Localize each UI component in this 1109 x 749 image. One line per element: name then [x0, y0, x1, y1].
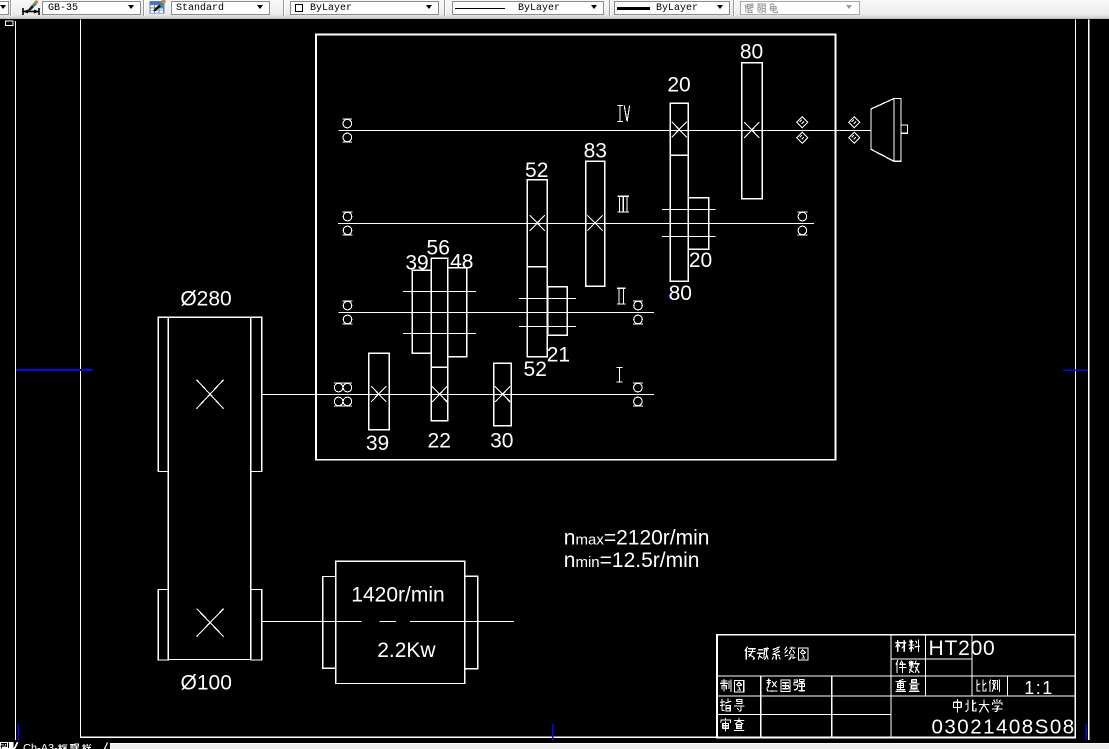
svg-text:22: 22 — [428, 430, 451, 453]
sheet outer left border — [15, 21, 17, 741]
active model tab — [0, 742, 14, 749]
X fixing gear 39 to shaft I — [371, 386, 386, 402]
shaft II — [338, 312, 654, 314]
bearing shaft III left lower — [343, 226, 353, 235]
dim style icon — [19, 0, 41, 17]
gear 39 on shaft II (cluster) — [412, 270, 431, 353]
layout tab glyphs biao ti lan — [58, 744, 66, 749]
X fixing gear 83 to shaft III — [587, 215, 602, 231]
sheet outer right border — [1088, 20, 1090, 743]
spline lines of 39/56/48 cluster on shaft II — [403, 291, 476, 293]
output pulley flange bar — [894, 99, 901, 162]
svg-text:80: 80 — [669, 282, 692, 305]
label shaft III — [618, 196, 629, 212]
X fixing gear 20 to shaft IV — [672, 122, 687, 138]
title block col line 1 — [760, 676, 762, 737]
svg-text:1420r/min: 1420r/min — [351, 584, 444, 607]
blue centerline dash right — [1063, 369, 1088, 371]
X fixing pulley D280 to shaft — [197, 380, 224, 409]
title block col line 4 — [924, 635, 926, 696]
spline lines of 80/20 cluster on shaft III — [662, 209, 716, 211]
output cone pulley — [871, 99, 894, 162]
X fixing gear 22 to shaft I — [432, 386, 447, 402]
title block col line 5 — [971, 635, 973, 696]
svg-text:Ø280: Ø280 — [180, 287, 231, 310]
bearing shaft I right upper — [633, 383, 643, 392]
belt loop — [168, 317, 250, 659]
color combo ByLayer — [290, 1, 439, 15]
bearing shaft II right lower — [633, 315, 643, 324]
coupling inner pair lower — [797, 132, 808, 143]
label cailiao (material) — [896, 641, 906, 652]
label zhitu (drawn by) — [721, 680, 731, 692]
X fixing pulley D100 to motor shaft — [197, 609, 224, 637]
label shencha (checked) — [721, 719, 731, 731]
svg-text:80: 80 — [740, 40, 763, 63]
motor right flange — [465, 576, 478, 669]
output pulley hub nub — [901, 125, 908, 133]
X fixing gear 30 to shaft I — [495, 386, 510, 402]
svg-text:20: 20 — [667, 74, 690, 97]
motor body — [336, 561, 465, 683]
bearing shaft IV left lower — [342, 133, 352, 142]
bearing shaft II left upper — [343, 301, 353, 310]
svg-text:21: 21 — [547, 343, 570, 366]
gear 20 on shaft III (cluster) — [688, 198, 708, 249]
svg-text:39: 39 — [366, 432, 389, 455]
linetype combo ByLayer — [452, 1, 604, 15]
gearbox housing — [316, 35, 836, 460]
svg-text:39: 39 — [405, 252, 428, 275]
bearing shaft III right upper — [798, 212, 808, 221]
svg-text:83: 83 — [584, 140, 607, 163]
text style icon — [148, 0, 168, 17]
bearing shaft II right upper — [633, 301, 643, 310]
coupling outer pair upper — [849, 117, 860, 128]
gear 80 on shaft IV — [742, 63, 763, 199]
name zhaoguoqiang — [767, 679, 777, 691]
pulley D100 right flange — [251, 590, 262, 661]
label jianshu (quantity) — [896, 661, 906, 673]
motor left flange — [323, 577, 336, 669]
spline lines of 52/21 cluster on shaft II — [519, 298, 576, 300]
shaft I — [262, 394, 655, 396]
title block col line 6 — [1007, 676, 1009, 696]
sheet inner right border — [1075, 20, 1077, 738]
label zhongliang (weight) — [896, 680, 906, 692]
coupling inner pair upper — [797, 117, 808, 128]
blue tick bottom-right — [1085, 724, 1087, 741]
svg-text:56: 56 — [427, 237, 450, 260]
text style combo Standard — [171, 1, 270, 15]
motor centerline — [262, 621, 514, 623]
coupling outer pair lower — [849, 132, 860, 143]
svg-text:48: 48 — [450, 251, 473, 274]
sheet corner mark — [6, 21, 14, 26]
partial glyph xing on model tab — [1, 743, 8, 749]
bearing shaft III right lower — [798, 226, 808, 235]
svg-text:HT200: HT200 — [929, 637, 996, 660]
X fixing gear 80 to shaft IV — [744, 122, 759, 138]
title text chuandong xitongtu — [745, 647, 755, 659]
gear 83 on shaft III — [586, 161, 605, 286]
gear 56 on shaft II (cluster) — [431, 258, 448, 367]
bearing shaft II left lower — [343, 315, 353, 324]
title block col line 3 — [890, 635, 892, 738]
blue centerline dash left — [16, 369, 93, 371]
tab separator slash — [105, 743, 108, 749]
label shaft I — [617, 367, 623, 382]
double bearing shaft I left lower — [334, 397, 352, 406]
svg-text:2.2Kw: 2.2Kw — [377, 639, 436, 662]
double bearing shaft I left upper — [334, 383, 352, 392]
tab separator backslash — [14, 742, 17, 749]
X fixing gear 52 to shaft III — [530, 215, 545, 231]
bearing shaft IV left upper — [342, 119, 352, 128]
tab bar background — [0, 740, 1109, 749]
horizontal scrollbar strip — [110, 743, 1109, 749]
gear 30 on shaft I — [494, 363, 512, 426]
label shaft IV — [617, 106, 629, 122]
title block col line 2 — [831, 676, 833, 737]
title block row line 3 — [717, 695, 1075, 697]
sheet inner left border — [80, 20, 82, 738]
title block row line 2 — [717, 675, 1075, 677]
svg-text:30: 30 — [490, 429, 513, 452]
title block row line material/qty — [891, 658, 972, 660]
school zhongbei daxue — [954, 700, 962, 712]
partial combo at far left — [0, 1, 9, 15]
label shaft II — [617, 288, 626, 304]
gear 20 on shaft IV — [670, 103, 688, 155]
pulley D100 left flange — [158, 590, 168, 661]
title block row line 4 — [717, 714, 891, 716]
svg-text:20: 20 — [689, 249, 712, 272]
svg-text:52: 52 — [525, 159, 548, 182]
bearing shaft III left upper — [343, 212, 353, 221]
svg-text:Ø100: Ø100 — [181, 671, 232, 694]
gear 52 on shaft III — [527, 180, 547, 267]
plot style combo (disabled) — [740, 1, 860, 15]
sheet inner bottom border — [80, 736, 1075, 738]
pulley D280 right flange — [251, 317, 262, 471]
title block outer border — [717, 635, 1075, 738]
svg-text:1:1: 1:1 — [1024, 678, 1054, 698]
svg-text:03021408S08: 03021408S08 — [932, 716, 1076, 739]
gear 21 on shaft II (cluster) — [548, 287, 568, 336]
blue point marker near shaft II end — [668, 294, 670, 299]
label bili (scale) — [977, 680, 986, 691]
gear 22 on shaft I — [431, 367, 448, 421]
svg-text:Ch-A3-: Ch-A3- — [23, 743, 58, 749]
pulley D280 left flange — [158, 317, 168, 471]
bearing shaft I right lower — [633, 397, 643, 406]
blue tick bottom-middle — [552, 724, 554, 742]
shaft III — [338, 223, 814, 225]
gear 39 on shaft I — [369, 353, 390, 429]
svg-text:52: 52 — [524, 358, 547, 381]
gear 48 on shaft II (cluster) — [448, 268, 467, 357]
blue tick bottom-left — [17, 724, 19, 742]
shaft IV — [338, 130, 871, 132]
label zhidao (advisor) — [721, 699, 731, 711]
lineweight combo ByLayer — [614, 1, 730, 15]
gear 80 on shaft III (cluster) — [670, 155, 688, 281]
dim style combo GB-35 — [42, 1, 141, 15]
gear 52 on shaft II (cluster) — [527, 267, 547, 357]
